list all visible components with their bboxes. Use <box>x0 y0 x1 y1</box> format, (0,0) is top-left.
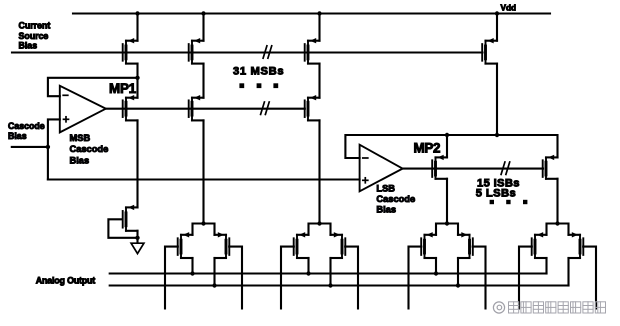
wire: MD1 gate tied to drain <box>108 219 137 238</box>
label 31 MSBs <box>233 66 284 78</box>
junction: pair 1 right drain on output- <box>212 283 216 287</box>
wire: M2 drain down to MP1-row cascode source <box>202 64 204 98</box>
transistor pair 2 left switch <box>294 232 309 258</box>
label MP1 <box>109 81 137 96</box>
junction: cascode bias tap <box>46 145 50 149</box>
transistor pair 2 right switch <box>331 232 346 258</box>
wire: LSB cascode gate line from U2 output <box>403 168 543 170</box>
junction: pair 3 left drain on output+ <box>434 271 438 275</box>
transistor M1 (top-row PMOS current source) <box>123 38 138 64</box>
junction on Vdd rail at column B <box>201 11 205 15</box>
label MSB Cascode Bias <box>70 133 109 166</box>
wire: pair 2 tail split <box>309 224 331 235</box>
switch pair 1: tail junction <box>201 221 205 225</box>
junction: MP2 source on LSB feedback line <box>445 133 449 137</box>
wire: pair 4 left gate to digital input <box>519 247 532 309</box>
transistor M3 (top-row PMOS current source) <box>305 38 320 64</box>
wire: M1 source up to Vdd rail <box>136 14 138 41</box>
svg-text:Cascode: Cascode <box>376 194 415 204</box>
svg-text:Bias: Bias <box>70 156 90 166</box>
watermark @ mark <box>493 302 504 313</box>
label Current Source Bias <box>19 21 51 51</box>
wire: Current Source Bias line <box>12 51 483 53</box>
wire: MP2 source up to feedback line <box>446 135 448 157</box>
wire: pair 2 left drain to output+ line <box>307 258 309 274</box>
transistor pair 1 right switch <box>215 232 230 258</box>
wire: U1 inverting input feedback to node A <box>48 78 138 96</box>
junction: pair 1 left drain on output+ <box>190 271 194 275</box>
wire: pair 4 right gate to digital input <box>583 247 596 309</box>
svg-text:Source: Source <box>19 31 49 41</box>
label Cascode Bias <box>8 121 45 141</box>
svg-text:Vdd: Vdd <box>501 4 516 13</box>
break mark // on LSB cascode gate line <box>501 162 510 174</box>
wire: MP2 drain down to switch pair 3 tail <box>446 179 448 224</box>
svg-text:31 MSBs: 31 MSBs <box>233 66 284 78</box>
wire: M3 source up to Vdd rail <box>318 14 320 41</box>
svg-text:LSB: LSB <box>376 184 395 194</box>
wire: pair 3 left gate to digital input <box>409 247 422 309</box>
svg-text:Cascode: Cascode <box>8 121 45 131</box>
wire: M1 drain down to MSB feedback node <box>136 64 138 78</box>
wire: MP1 drain down to diode transistor <box>136 120 138 207</box>
switch pair 2: tail junction <box>317 221 321 225</box>
svg-text:Analog Output: Analog Output <box>36 275 96 285</box>
wire: pair 1 left gate to digital input <box>165 247 178 309</box>
transistor M4 (top-row PMOS current source) <box>482 38 497 64</box>
label LSB Cascode Bias <box>376 184 415 215</box>
transistor MC4 (LSB cascode, right) <box>543 155 558 179</box>
wire: analog output line + <box>110 272 547 274</box>
transistor M2 (top-row PMOS current source) <box>189 38 204 64</box>
wire: Vdd power rail <box>73 12 550 14</box>
wire: analog output line - <box>110 284 569 286</box>
ellipsis dots for 31 MSB cells <box>239 83 278 88</box>
junction: MD1 gate-drain tie <box>135 236 139 240</box>
transistor MP2 (LSB cascode) <box>432 155 447 179</box>
wire: MC4 drain down to switch pair 4 tail <box>556 179 558 224</box>
transistor pair 4 right switch <box>569 232 584 258</box>
wire: pair 4 left drain to output+ line <box>545 258 547 274</box>
junction on Vdd rail at column C <box>317 11 321 15</box>
svg-text:MP1: MP1 <box>109 81 137 96</box>
transistor pair 3 right switch <box>458 232 473 258</box>
junction node A (M1 drain / MP1 source / U1 feedback) <box>135 76 139 80</box>
wire: pair 4 tail split <box>547 224 569 235</box>
junction on Vdd rail at column A <box>135 11 139 15</box>
wire: cascode bias rail to LSB op-amp + input <box>48 178 360 180</box>
wire: M4 source up to Vdd rail <box>496 14 498 41</box>
junction: pair 3 right drain on output- <box>456 283 460 287</box>
wire: pair 4 right drain to output- line <box>567 258 569 286</box>
switch pair 3: tail junction <box>445 221 449 225</box>
wire: MC2 drain down to switch pair 1 tail <box>202 120 204 223</box>
op-amp U2 (LSB cascode bias amplifier) <box>360 145 403 192</box>
label 15 ISBs / 5 LSBs <box>476 177 520 199</box>
wire: pair 1 right gate to digital input <box>229 247 242 309</box>
transistor MC2 (MSB cascode) <box>189 95 204 120</box>
transistor MP1 (MSB cascode) <box>123 95 138 120</box>
node Vdd label <box>501 4 516 13</box>
wire: Cascode Bias input <box>12 146 48 148</box>
transistor pair 1 left switch <box>178 232 193 258</box>
junction on Vdd rail at column D <box>495 11 499 15</box>
wire: pair 2 right gate to digital input <box>345 247 358 309</box>
wire: pair 2 left gate to digital input <box>281 247 294 309</box>
junction: M4 drain on LSB feedback line <box>495 133 499 137</box>
svg-text:Current: Current <box>19 21 51 31</box>
ground symbol <box>131 243 144 253</box>
break mark // on current source bias line <box>263 46 272 58</box>
svg-text:5 LSBs: 5 LSBs <box>476 188 516 200</box>
svg-text:Bias: Bias <box>19 41 38 51</box>
wire: pair 3 left drain to output+ line <box>435 258 437 274</box>
wire: U1 non-inverting input down to cascode bias rail <box>48 119 60 179</box>
junction: pair 2 right drain on output- <box>328 283 332 287</box>
wire: pair 3 right gate to digital input <box>473 247 486 309</box>
junction: pair 2 left drain on output+ <box>306 271 310 275</box>
svg-text:Bias: Bias <box>376 204 396 214</box>
wire: M4 drain down to LSB feedback node <box>496 64 498 135</box>
watermark CJK glyph blocks <box>509 302 606 313</box>
wire: pair 3 right drain to output- line <box>457 258 459 286</box>
svg-text:Cascode: Cascode <box>70 144 109 154</box>
label MP2 <box>414 140 441 155</box>
transistor pair 4 left switch <box>532 232 547 258</box>
wire: MSB cascode gate line from U1 output <box>106 108 305 110</box>
switch pair 4: tail junction <box>555 221 559 225</box>
op-amp U1 (MSB cascode bias amplifier) <box>60 86 106 133</box>
wire: MC3 drain down to switch pair 2 tail <box>318 120 320 223</box>
ellipsis dots for LSB cells <box>490 200 528 204</box>
transistor MD1 (diode-connected, MSB bias leg) <box>123 205 138 231</box>
wire: M3 drain down to cascode source <box>318 64 320 98</box>
wire: pair 3 tail split <box>436 224 458 235</box>
wire: pair 1 tail split <box>193 224 215 235</box>
svg-text:Bias: Bias <box>8 131 27 141</box>
transistor MC3 (MSB cascode) <box>305 95 320 120</box>
wire: M2 source up to Vdd rail <box>202 14 204 41</box>
wire: pair 2 right drain to output- line <box>329 258 331 286</box>
wire: MD1 drain down to ground <box>136 231 138 243</box>
wire: pair 1 right drain to output- line <box>213 258 215 286</box>
svg-text:MP2: MP2 <box>414 140 441 155</box>
svg-text:MSB: MSB <box>70 133 91 143</box>
break mark // on MSB cascode gate line <box>261 102 270 114</box>
transistor pair 3 left switch <box>421 232 436 258</box>
wire: pair 1 left drain to output+ line <box>191 258 193 274</box>
wire: U2 inverting input feedback line <box>345 135 557 158</box>
label Analog Output <box>36 275 96 285</box>
wire: MP1 source up to node A <box>136 78 138 98</box>
